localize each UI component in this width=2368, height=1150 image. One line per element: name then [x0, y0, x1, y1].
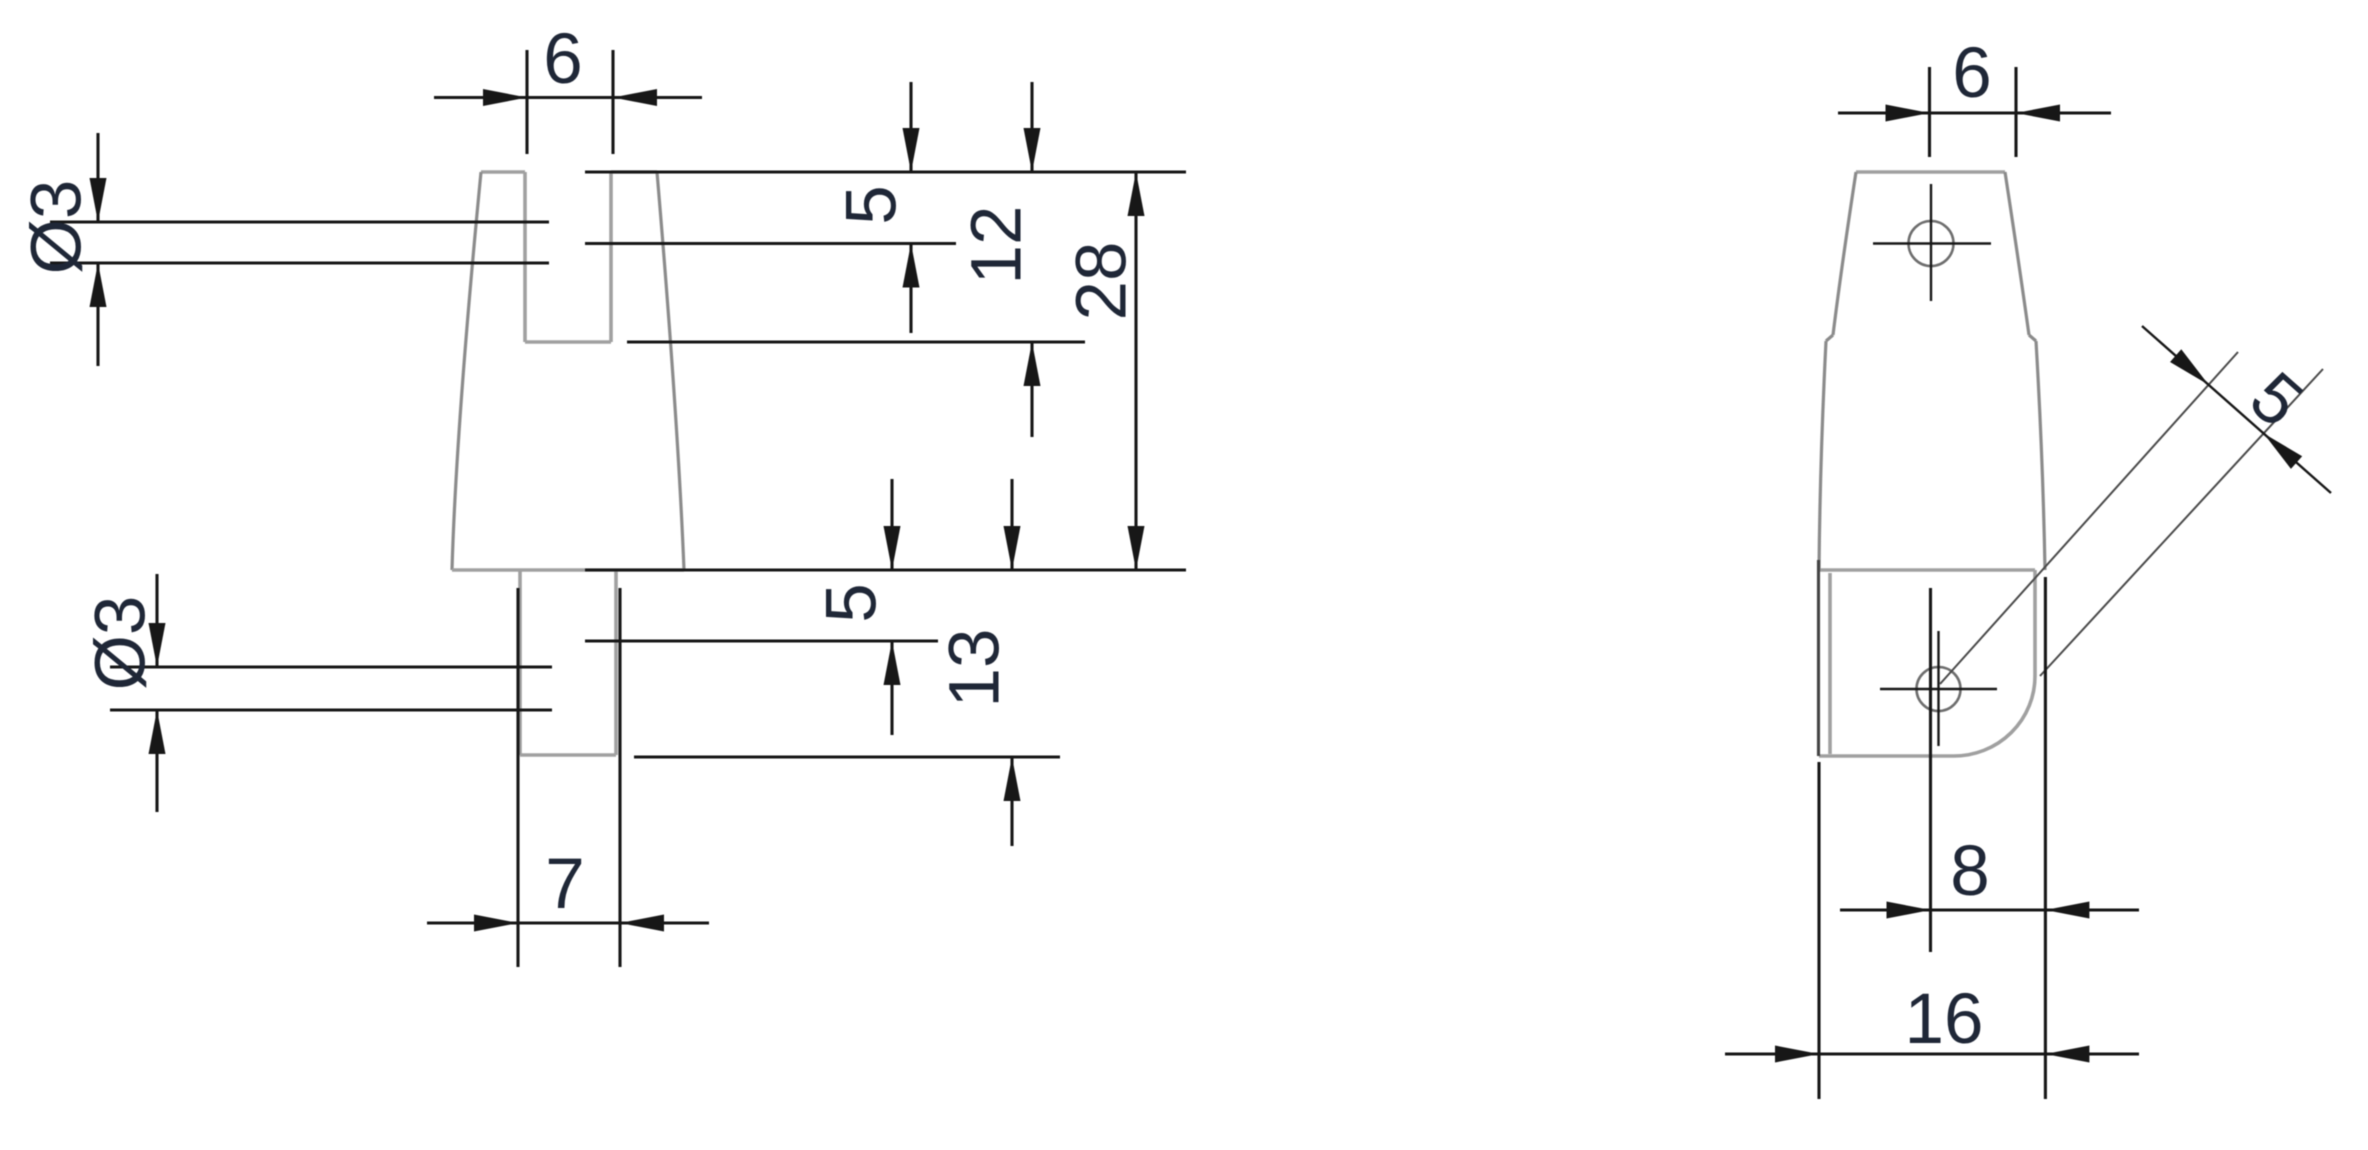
- left notch: [1826, 335, 1833, 341]
- extension line through hole: [1940, 352, 2238, 684]
- dimension D3 (upper hole): [50, 133, 549, 366]
- svg-text:7: 7: [545, 845, 585, 924]
- tab bottom: [520, 753, 616, 757]
- dimension line diagonal: [2142, 326, 2331, 493]
- svg-text:28: 28: [1063, 242, 1142, 321]
- section corner fillet: [1954, 676, 2035, 756]
- extension line tab bottom right: [634, 755, 1060, 758]
- section right wall: [2033, 570, 2037, 676]
- right tapered side: [657, 172, 684, 570]
- top edge right of slot: [611, 170, 657, 174]
- section top edge: [1817, 568, 2035, 572]
- svg-text:5: 5: [2235, 357, 2317, 442]
- slot left wall: [523, 172, 527, 342]
- upper hole centerlines: [1930, 184, 1932, 301]
- extension line top edge right: [585, 170, 1186, 173]
- tab left wall: [518, 570, 522, 755]
- left tapered side: [452, 172, 481, 570]
- right side lower slope: [2036, 341, 2045, 570]
- extension line along corner: [2040, 369, 2323, 676]
- hole top line: [110, 665, 552, 668]
- right side upper slope: [2005, 172, 2029, 335]
- right notch: [2029, 335, 2036, 341]
- svg-text:8: 8: [1950, 832, 1990, 911]
- section left inner wall: [1828, 573, 1832, 754]
- left side lower slope: [1819, 341, 1826, 570]
- part outline side view (gray): [1856, 170, 2005, 174]
- lower hole centerlines: [1937, 631, 1939, 746]
- vertical dimension line: [155, 574, 158, 667]
- dimension 6 (slot width, top): [434, 50, 702, 154]
- extension line y641: [585, 639, 938, 642]
- dimension 8: [1840, 588, 2139, 952]
- svg-text:6: 6: [1952, 34, 1992, 113]
- extension line slot bottom right: [627, 340, 1085, 343]
- dimension 12: [1030, 82, 1033, 172]
- svg-text:6: 6: [543, 20, 583, 99]
- slot right wall: [609, 172, 613, 342]
- svg-text:16: 16: [1905, 980, 1984, 1059]
- svg-text:13: 13: [936, 629, 1015, 708]
- dimension 7 (tab width): [427, 588, 709, 967]
- svg-text:5: 5: [833, 185, 912, 225]
- dimension 6 (top, side view): [1838, 67, 2111, 157]
- dimension D3 (lower hole): [110, 574, 552, 812]
- dimension 28: [1134, 172, 1137, 570]
- svg-text:Ø3: Ø3: [82, 596, 161, 691]
- top edge: [1856, 170, 2005, 174]
- top edge left of slot: [481, 170, 525, 174]
- dimension 5 (lower): [890, 479, 893, 570]
- extension line base right: [585, 568, 1186, 571]
- hole bottom line: [50, 261, 549, 264]
- section bottom: [1819, 754, 1954, 758]
- dimension 13: [1010, 479, 1013, 570]
- left side upper slope: [1833, 172, 1856, 335]
- tab right wall: [614, 570, 618, 755]
- upper hole side view: [1909, 221, 1954, 266]
- slot bottom: [525, 340, 611, 344]
- lower hole side view: [1917, 667, 1961, 711]
- extension line hole center right: [585, 242, 956, 245]
- hole top line: [50, 220, 549, 223]
- svg-text:Ø3: Ø3: [18, 180, 97, 275]
- dimension 5 (upper right): [909, 82, 912, 172]
- base edge: [452, 568, 684, 572]
- vertical dimension line: [96, 133, 99, 222]
- aligned dimension 5 (diagonal): [1940, 352, 2323, 684]
- part outline front view (gray): [481, 172, 657, 342]
- hole bottom line: [110, 708, 552, 711]
- left outer edge black below jog: [1817, 560, 1820, 756]
- dimension 16: [1725, 577, 2139, 1099]
- svg-text:12: 12: [958, 206, 1037, 285]
- svg-text:5: 5: [813, 583, 892, 623]
